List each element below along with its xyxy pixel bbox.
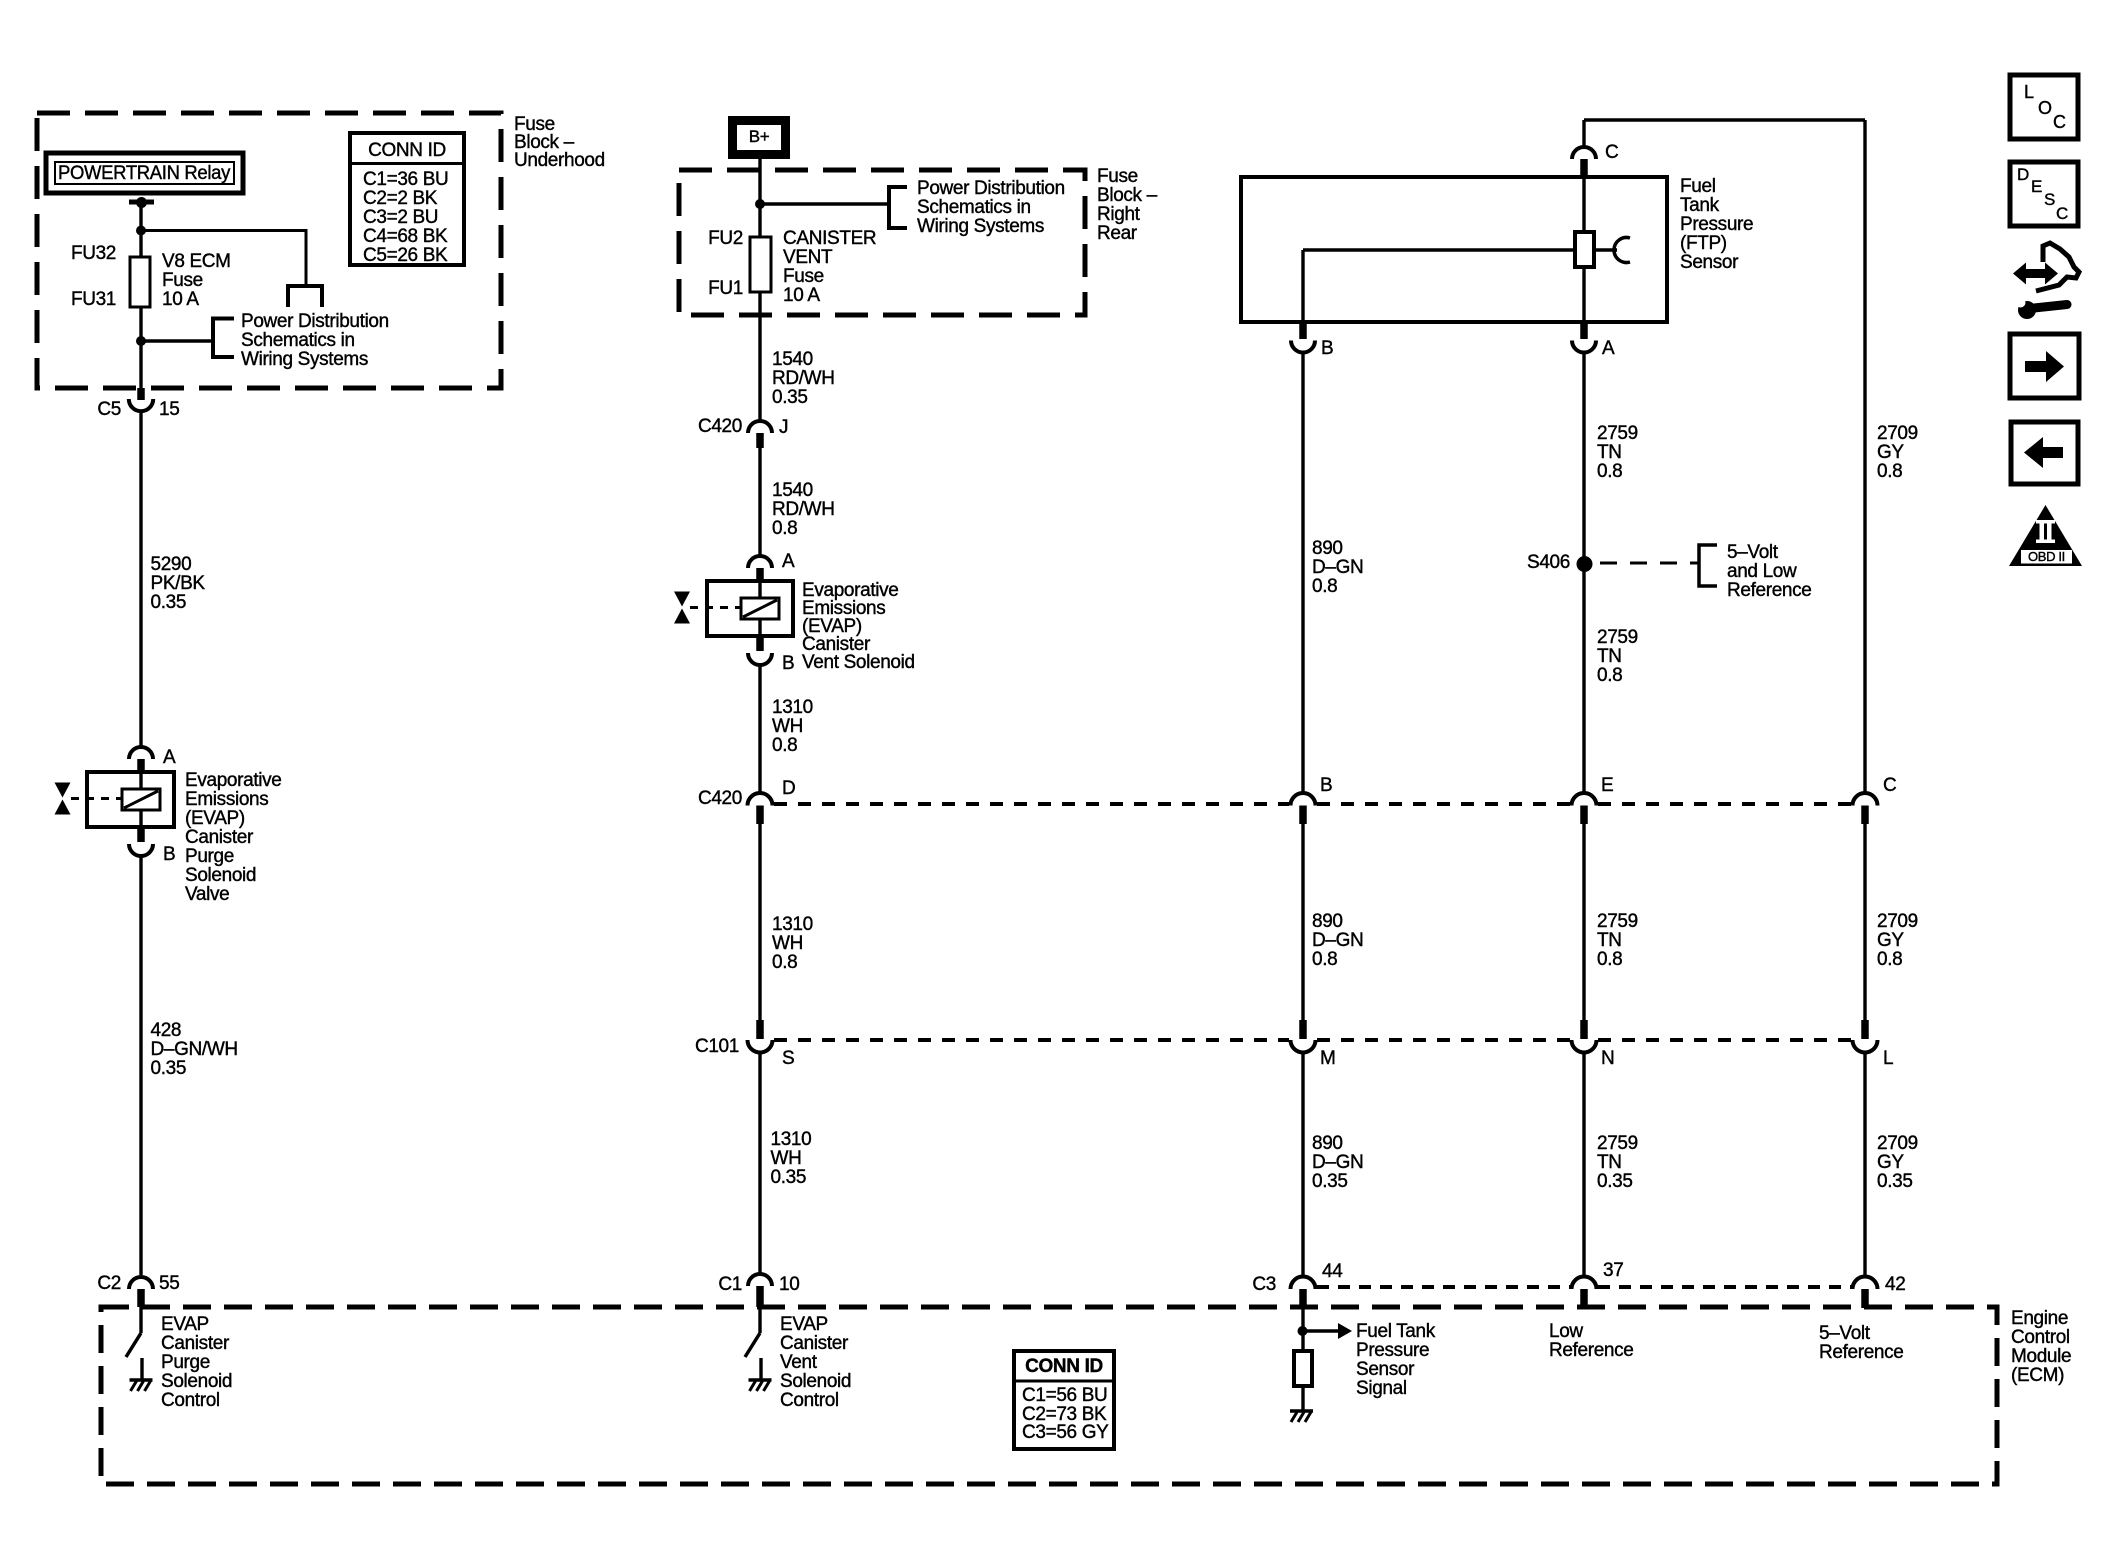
svg-text:15: 15: [159, 399, 179, 420]
svg-text:C4=68 BK: C4=68 BK: [363, 226, 448, 247]
junction node to power distribution (lower): [136, 336, 146, 346]
ECM pull-up resistor (FTP): [1294, 1351, 1312, 1386]
svg-text:C3=56 GY: C3=56 GY: [1022, 1422, 1109, 1443]
svg-text:C5: C5: [97, 399, 121, 420]
svg-text:CONN ID: CONN ID: [368, 140, 446, 161]
icon: wrench: [2018, 301, 2036, 319]
svg-text:WH: WH: [772, 933, 803, 954]
wire 428 D-GN/WH segment: [139, 856, 142, 1275]
svg-text:Emissions: Emissions: [185, 789, 268, 810]
svg-text:0.8: 0.8: [1597, 665, 1622, 686]
svg-text:Reference: Reference: [1549, 1340, 1634, 1361]
connector row2 pin N (pin): [1580, 1020, 1588, 1039]
svg-text:Schematics in: Schematics in: [241, 330, 355, 351]
svg-text:Underhood: Underhood: [514, 150, 605, 171]
junction node to power distribution (right rear): [755, 199, 765, 209]
ECM internal ground stem (purge): [140, 1358, 143, 1380]
connector: purge solenoid terminal A (socket arc): [129, 747, 153, 759]
svg-text:Fuel Tank: Fuel Tank: [1356, 1321, 1436, 1342]
svg-text:C: C: [1883, 775, 1896, 796]
wire: branch to power distribution bracket (right rear): [760, 202, 889, 205]
svg-text:0.35: 0.35: [1877, 1171, 1913, 1192]
svg-text:0.35: 0.35: [1312, 1171, 1348, 1192]
splice S406 dashed reference link: [1600, 562, 1699, 565]
connector C101 pin S (pin): [756, 1020, 764, 1039]
svg-text:Sensor: Sensor: [1356, 1359, 1415, 1380]
ECM driver switch lever (vent): [745, 1333, 760, 1357]
relay contact pin (T-bar) with junction dot: [129, 200, 154, 205]
svg-text:FU1: FU1: [708, 278, 743, 299]
connector row1 pin B (pin): [1299, 806, 1307, 825]
svg-text:890: 890: [1312, 538, 1343, 559]
svg-text:Schematics in: Schematics in: [917, 197, 1031, 218]
junction node to power distribution (upper): [136, 226, 146, 236]
svg-text:428: 428: [151, 1020, 182, 1041]
icon: LOC button box: [2010, 75, 2078, 139]
wire 1310 WH 0.8 segment (lower): [758, 824, 761, 1020]
icon: back arrow box: [2011, 422, 2078, 484]
svg-text:Power Distribution: Power Distribution: [241, 311, 389, 332]
svg-text:0.8: 0.8: [1877, 461, 1902, 482]
wire: B+ to fuse FU2: [758, 159, 761, 237]
svg-text:2759: 2759: [1597, 423, 1638, 444]
svg-text:2709: 2709: [1877, 911, 1918, 932]
wire 2759 TN 0.8 segment (upper): [1582, 353, 1585, 794]
svg-text:1310: 1310: [772, 914, 813, 935]
icon: back arrow: [2024, 437, 2063, 468]
connector row2 pin M (socket arc): [1291, 1040, 1316, 1053]
svg-text:Fuse: Fuse: [1097, 166, 1138, 187]
connector C5 pin 15 (socket arc): [129, 399, 153, 411]
wire 1310 WH 0.8 segment (upper): [758, 665, 761, 793]
purge solenoid valve symbol (hourglass): [55, 783, 71, 798]
svg-text:Fuel: Fuel: [1680, 176, 1716, 197]
svg-text:2709: 2709: [1877, 423, 1918, 444]
svg-text:D–GN/WH: D–GN/WH: [151, 1039, 238, 1060]
connector: FTP terminal A (pin): [1580, 322, 1588, 339]
svg-text:C2: C2: [97, 1273, 121, 1294]
svg-text:0.8: 0.8: [772, 518, 797, 539]
svg-text:0.8: 0.8: [1597, 949, 1622, 970]
connector C5 pin 15 (pin): [137, 388, 145, 400]
off-page bracket (power distribution, upper): [288, 286, 322, 307]
svg-text:Control: Control: [2011, 1327, 2070, 1348]
svg-text:Valve: Valve: [185, 884, 229, 905]
ECM interconnect dashed line (row 3): [1317, 1285, 1570, 1289]
svg-text:B: B: [1321, 338, 1333, 359]
svg-text:C: C: [1605, 142, 1618, 163]
ECM internal wire (vent control): [758, 1307, 761, 1333]
harness interconnect dashed line (row 2): [774, 1038, 1289, 1042]
svg-text:Control: Control: [161, 1390, 220, 1411]
svg-text:2759: 2759: [1597, 1133, 1638, 1154]
svg-text:890: 890: [1312, 1133, 1343, 1154]
connector row1 pin C (socket arc): [1853, 793, 1878, 806]
ground (FTP signal): [1290, 1409, 1313, 1413]
svg-text:E: E: [2031, 177, 2042, 196]
svg-text:V8 ECM: V8 ECM: [162, 251, 231, 272]
svg-text:N: N: [1601, 1048, 1614, 1069]
fuel tank pressure sensor body: [1241, 177, 1667, 322]
svg-text:O: O: [2038, 98, 2052, 118]
wire 5290 PK/BK segment: [139, 411, 142, 747]
ECM driver switch lever (purge): [126, 1333, 141, 1357]
engine control module enclosure (dashed): [101, 1307, 1997, 1484]
svg-text:Wiring Systems: Wiring Systems: [917, 216, 1044, 237]
harness interconnect dashed line (row 1): [774, 802, 1289, 806]
svg-text:Module: Module: [2011, 1346, 2071, 1367]
connector: vent solenoid terminal A (pin): [756, 568, 764, 581]
purge solenoid coil: [122, 789, 160, 810]
svg-text:GY: GY: [1877, 442, 1904, 463]
svg-text:C1=56 BU: C1=56 BU: [1022, 1385, 1107, 1406]
svg-text:D–GN: D–GN: [1312, 930, 1363, 951]
fuse FU1/FU2: CANISTER VENT Fuse 10 A: [750, 237, 771, 292]
svg-text:C1=36 BU: C1=36 BU: [363, 169, 448, 190]
svg-text:0.8: 0.8: [1877, 949, 1902, 970]
svg-text:890: 890: [1312, 911, 1343, 932]
connector: vent solenoid terminal B (pin): [756, 636, 764, 651]
svg-text:1540: 1540: [772, 349, 813, 370]
connector: FTP sensor terminal C (pin): [1580, 159, 1588, 177]
svg-text:S: S: [782, 1048, 794, 1069]
wire 890 D-GN 0.8 segment (upper): [1301, 353, 1304, 794]
svg-text:Reference: Reference: [1727, 580, 1812, 601]
svg-text:Canister: Canister: [780, 1333, 849, 1354]
svg-text:55: 55: [159, 1273, 179, 1294]
connector C101 pin S (socket arc): [748, 1040, 773, 1053]
wire 2759 TN 0.8 segment (lower): [1582, 824, 1585, 1020]
connector: FTP terminal B (pin): [1299, 322, 1307, 339]
svg-text:C: C: [2056, 204, 2068, 223]
svg-text:S406: S406: [1527, 552, 1570, 573]
svg-text:Control: Control: [780, 1390, 839, 1411]
svg-text:42: 42: [1885, 1274, 1905, 1295]
svg-text:OBD II: OBD II: [2028, 549, 2065, 564]
svg-text:C3=2 BU: C3=2 BU: [363, 207, 438, 228]
svg-text:C5=26 BK: C5=26 BK: [363, 245, 448, 266]
connector ECM pin 42 (socket arc): [1853, 1277, 1878, 1290]
svg-text:1310: 1310: [771, 1129, 812, 1150]
wire: relay to fuse FU32: [139, 202, 142, 257]
EVAP canister vent solenoid body: [707, 581, 793, 636]
connector: vent solenoid terminal B (socket arc): [748, 653, 772, 665]
connector: purge solenoid terminal B (socket arc): [129, 844, 153, 856]
wire 890 D-GN 0.8 segment (lower): [1301, 824, 1304, 1020]
svg-text:POWERTRAIN Relay: POWERTRAIN Relay: [58, 163, 231, 184]
connector ECM pin 37 (pin): [1580, 1289, 1588, 1308]
svg-text:C420: C420: [698, 788, 742, 809]
svg-text:2759: 2759: [1597, 911, 1638, 932]
wire: branch to power distribution bracket (upper): [141, 231, 306, 287]
wire: branch to power distribution bracket (lower): [141, 339, 213, 342]
FTP pressure port lead: [1594, 248, 1617, 251]
power feed B+ box: [728, 116, 790, 159]
EVAP canister purge solenoid valve body: [87, 772, 174, 827]
svg-text:RD/WH: RD/WH: [772, 368, 835, 389]
connector C420 pin D (pin): [756, 806, 764, 825]
svg-text:10 A: 10 A: [162, 289, 199, 310]
connector row1 pin E (pin): [1580, 806, 1588, 825]
wire 1310 WH 0.35 segment: [758, 1053, 761, 1275]
connector C420 pin J (pin): [756, 433, 764, 448]
vent solenoid actuator link (dashed): [690, 606, 741, 609]
ECM internal ground stem (vent): [759, 1358, 762, 1380]
svg-text:1540: 1540: [772, 480, 813, 501]
connector C3 pin 44 (socket arc): [1291, 1277, 1316, 1290]
svg-text:Pressure: Pressure: [1680, 214, 1753, 235]
wire 2709 GY 0.8 segment (lower): [1863, 824, 1866, 1020]
svg-text:1310: 1310: [772, 697, 813, 718]
splice S406: [1577, 556, 1593, 572]
wire inside vent solenoid: [758, 581, 761, 598]
svg-text:Low: Low: [1549, 1321, 1583, 1342]
icon: vehicle outline: [2036, 243, 2079, 291]
svg-text:FU31: FU31: [71, 289, 116, 310]
svg-text:WH: WH: [771, 1148, 802, 1169]
vent solenoid coil: [741, 598, 779, 619]
connector: FTP sensor terminal C (socket arc): [1572, 147, 1596, 159]
connector C420 pin J (socket arc): [748, 421, 772, 433]
connector row2 pin L (socket arc): [1853, 1040, 1878, 1053]
svg-text:44: 44: [1322, 1261, 1343, 1282]
vent solenoid valve symbol (hourglass): [674, 592, 690, 607]
svg-text:EVAP: EVAP: [161, 1314, 209, 1335]
icon: data exchange double arrow: [2013, 263, 2058, 285]
purge solenoid actuator link (dashed): [71, 797, 122, 800]
ECM internal wire to ground (FTP): [1301, 1386, 1304, 1411]
svg-text:Block –: Block –: [1097, 185, 1158, 206]
svg-text:Sensor: Sensor: [1680, 252, 1739, 273]
svg-text:0.8: 0.8: [1312, 949, 1337, 970]
svg-text:C420: C420: [698, 416, 742, 437]
svg-text:(ECM): (ECM): [2011, 1365, 2064, 1386]
connector: FTP terminal B (socket arc): [1291, 341, 1315, 353]
svg-text:VENT: VENT: [783, 247, 833, 268]
svg-text:(FTP): (FTP): [1680, 233, 1727, 254]
svg-text:Power Distribution: Power Distribution: [917, 178, 1065, 199]
svg-text:Rear: Rear: [1097, 223, 1138, 244]
ECM internal wire (FTP signal): [1301, 1308, 1304, 1351]
junction node (FTP signal): [1298, 1326, 1308, 1336]
wire: FTP sensor C to 5-volt reference feed (top route): [1584, 118, 1865, 121]
svg-text:0.35: 0.35: [772, 387, 808, 408]
wire: fuse to connector C5: [139, 307, 142, 388]
svg-text:Vent: Vent: [780, 1352, 818, 1373]
svg-text:B: B: [163, 844, 175, 865]
svg-text:Vent Solenoid: Vent Solenoid: [802, 652, 915, 673]
svg-text:Purge: Purge: [185, 846, 234, 867]
svg-text:Canister: Canister: [185, 827, 254, 848]
connector: FTP terminal A (socket arc): [1572, 341, 1596, 353]
svg-text:B: B: [1320, 775, 1332, 796]
ground (purge driver): [130, 1378, 153, 1382]
svg-text:WH: WH: [772, 716, 803, 737]
svg-text:A: A: [1602, 338, 1615, 359]
svg-text:D–GN: D–GN: [1312, 557, 1363, 578]
fuse block - underhood enclosure (dashed): [37, 113, 501, 388]
svg-text:37: 37: [1603, 1260, 1623, 1281]
svg-text:Fuse: Fuse: [783, 266, 824, 287]
svg-text:C3: C3: [1252, 1274, 1276, 1295]
svg-text:2709: 2709: [1877, 1133, 1918, 1154]
svg-text:Evaporative: Evaporative: [185, 770, 282, 791]
svg-text:CANISTER: CANISTER: [783, 228, 876, 249]
connector C1 pin 10 (socket arc): [748, 1274, 772, 1286]
svg-text:C2=2 BK: C2=2 BK: [363, 188, 438, 209]
svg-text:C1: C1: [718, 1274, 742, 1295]
icon: forward arrow box: [2010, 334, 2079, 398]
svg-text:(EVAP): (EVAP): [185, 808, 245, 829]
svg-text:Solenoid: Solenoid: [185, 865, 256, 886]
svg-text:Tank: Tank: [1680, 195, 1720, 216]
connector row2 pin L (pin): [1861, 1020, 1869, 1039]
connector ECM pin 37 (socket arc): [1572, 1277, 1597, 1290]
svg-text:J: J: [779, 417, 788, 438]
conn id table (underhood): [350, 133, 464, 265]
connector C2 pin 55 (pin): [137, 1289, 145, 1307]
wire 1540 RD/WH 0.35 segment: [758, 292, 761, 421]
fuse FU31/FU32: V8 ECM Fuse 10 A: [130, 257, 150, 307]
svg-text:2759: 2759: [1597, 627, 1638, 648]
svg-text:B+: B+: [749, 127, 770, 146]
off-page bracket (power distribution, lower): [213, 319, 234, 358]
svg-text:D–GN: D–GN: [1312, 1152, 1363, 1173]
connector C3 pin 44 (pin): [1299, 1289, 1307, 1308]
svg-text:5–Volt: 5–Volt: [1727, 542, 1779, 563]
svg-text:TN: TN: [1597, 646, 1622, 667]
svg-text:Fuse: Fuse: [162, 270, 203, 291]
svg-text:10 A: 10 A: [783, 285, 820, 306]
connector: purge solenoid terminal B (pin): [137, 827, 145, 842]
svg-text:TN: TN: [1597, 930, 1622, 951]
svg-text:E: E: [1601, 775, 1613, 796]
off-page bracket (power distribution, right rear): [889, 187, 907, 228]
connector C420 pin D (socket arc): [748, 793, 773, 806]
svg-text:C101: C101: [695, 1036, 739, 1057]
svg-text:RD/WH: RD/WH: [772, 499, 835, 520]
svg-text:D: D: [2017, 165, 2029, 184]
svg-text:Pressure: Pressure: [1356, 1340, 1429, 1361]
svg-text:5–Volt: 5–Volt: [1819, 1323, 1871, 1344]
svg-text:CONN ID: CONN ID: [1025, 1356, 1103, 1377]
svg-text:5290: 5290: [151, 554, 192, 575]
svg-text:0.35: 0.35: [771, 1167, 807, 1188]
svg-text:and Low: and Low: [1727, 561, 1797, 582]
svg-text:D: D: [782, 778, 795, 799]
connector row2 pin N (socket arc): [1572, 1040, 1597, 1053]
svg-text:0.8: 0.8: [772, 952, 797, 973]
connector row2 pin M (pin): [1299, 1020, 1307, 1039]
svg-text:0.8: 0.8: [1597, 461, 1622, 482]
ECM internal wire (purge control): [139, 1307, 142, 1333]
wire 1540 RD/WH 0.8 segment: [758, 448, 761, 556]
FTP sensor internal wires: [1582, 177, 1585, 232]
svg-text:Solenoid: Solenoid: [780, 1371, 851, 1392]
svg-text:FU32: FU32: [71, 243, 116, 264]
icon: OBD II warning triangle: [2009, 505, 2082, 566]
ground (vent driver): [749, 1378, 772, 1382]
svg-text:Purge: Purge: [161, 1352, 210, 1373]
svg-text:Canister: Canister: [161, 1333, 230, 1354]
svg-text:L: L: [1883, 1048, 1893, 1069]
svg-text:C: C: [2053, 112, 2066, 132]
svg-text:FU2: FU2: [708, 228, 743, 249]
wire inside purge solenoid: [139, 772, 142, 789]
connector C1 pin 10 (pin): [756, 1286, 764, 1307]
svg-text:TN: TN: [1597, 442, 1622, 463]
FTP signal arrow: [1303, 1329, 1338, 1333]
svg-text:EVAP: EVAP: [780, 1314, 828, 1335]
icon: DESC button box: [2010, 162, 2078, 226]
svg-text:M: M: [1320, 1048, 1335, 1069]
svg-text:0.8: 0.8: [772, 735, 797, 756]
svg-text:Wiring Systems: Wiring Systems: [241, 349, 368, 370]
svg-text:Reference: Reference: [1819, 1342, 1904, 1363]
svg-text:A: A: [163, 747, 176, 768]
svg-text:10: 10: [779, 1274, 799, 1295]
svg-text:Signal: Signal: [1356, 1378, 1407, 1399]
wire 2709 GY 0.35 segment: [1863, 1053, 1866, 1278]
svg-text:Solenoid: Solenoid: [161, 1371, 232, 1392]
svg-text:TN: TN: [1597, 1152, 1622, 1173]
fuse block - right rear enclosure (dashed): [679, 170, 1085, 315]
svg-text:0.35: 0.35: [151, 1058, 187, 1079]
icon: forward arrow: [2025, 351, 2064, 382]
svg-text:0.35: 0.35: [1597, 1171, 1633, 1192]
conn id table (ECM): [1014, 1351, 1114, 1449]
svg-text:S: S: [2044, 190, 2055, 209]
svg-text:PK/BK: PK/BK: [151, 573, 206, 594]
FTP sensing element: [1575, 232, 1594, 267]
svg-text:B: B: [782, 653, 794, 674]
wire 2759 TN 0.35 segment: [1582, 1053, 1585, 1278]
svg-text:Engine: Engine: [2011, 1308, 2068, 1329]
svg-text:L: L: [2024, 82, 2034, 102]
svg-text:GY: GY: [1877, 930, 1904, 951]
svg-text:A: A: [782, 551, 795, 572]
FTP pressure port (open arc): [1614, 238, 1630, 263]
svg-text:GY: GY: [1877, 1152, 1904, 1173]
connector row1 pin C (pin): [1861, 806, 1869, 825]
connector: purge solenoid terminal A (pin): [137, 759, 145, 772]
connector row1 pin E (socket arc): [1572, 793, 1597, 806]
connector row1 pin B (socket arc): [1291, 793, 1316, 806]
svg-text:0.8: 0.8: [1312, 576, 1337, 597]
off-page bracket (5-volt and low reference): [1699, 545, 1717, 586]
connector ECM pin 42 (pin): [1861, 1289, 1869, 1308]
wire 890 D-GN 0.35 segment: [1301, 1053, 1304, 1278]
connector C2 pin 55 (socket arc): [129, 1277, 153, 1289]
relay K: POWERTRAIN Relay box: [46, 153, 243, 193]
svg-text:Right: Right: [1097, 204, 1141, 225]
connector: vent solenoid terminal A (socket arc): [748, 556, 772, 568]
svg-text:0.35: 0.35: [151, 592, 187, 613]
